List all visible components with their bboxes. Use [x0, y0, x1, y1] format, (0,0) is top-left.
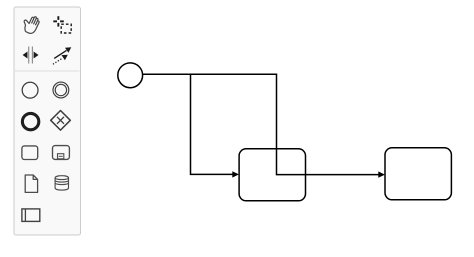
space tool entry [28, 47, 30, 64]
subprocess entry [53, 146, 70, 160]
task entry [22, 146, 38, 160]
task 2 [385, 148, 451, 200]
intermediate event entry [53, 82, 69, 98]
palette group separator [15, 70, 80, 72]
sequence flow A: start event to task 1 [142, 74, 233, 174]
data object entry [25, 175, 37, 192]
data store entry [55, 176, 68, 190]
exclusive gateway entry [51, 111, 71, 131]
lasso tool entry [53, 16, 64, 26]
participant entry [22, 209, 40, 222]
hand tool entry [20, 13, 40, 35]
task 1 [239, 149, 305, 201]
start event [118, 63, 143, 88]
palette panel [14, 7, 81, 235]
start event entry [22, 82, 38, 98]
global connect tool entry [54, 50, 66, 58]
sequence flow B: start event to task 2 [142, 74, 379, 174]
end event entry [22, 113, 38, 129]
